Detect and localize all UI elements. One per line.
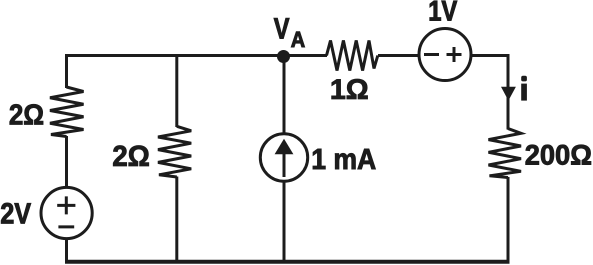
wire: left vertical between R1 and 2V source [65,136,68,189]
label 1 mA [313,149,376,169]
wire: bottom rail [65,260,510,264]
label 1V [430,1,457,21]
V1 minus sign [58,225,74,228]
label 2ohm (middle resistor) [113,146,148,166]
voltage source V2 1V circle [419,29,471,81]
V1 plus sign [57,196,75,214]
voltage source V1 2V circle [41,187,92,238]
wire: left vertical top segment [65,54,68,88]
I1 arrowhead [275,139,294,155]
label 200ohm [526,145,591,165]
wire: top rail from top-left corner to 1ohm resistor [67,54,328,57]
resistor R3 1ohm (horizontal) zigzag [327,41,378,71]
wire: left vertical below 2V source [65,239,68,262]
resistor R2 2ohm (middle) zigzag [158,126,191,177]
node A dot [277,50,290,63]
V2 plus sign [447,47,462,62]
label 2V [1,203,31,223]
label i [521,84,527,101]
label V_A [274,18,289,38]
label 1ohm [332,79,368,99]
wire: 1ohm to V2 [378,54,420,57]
resistor R1 2ohm (left) zigzag [50,87,84,137]
label 2ohm (left resistor) [10,104,43,124]
label V_A subscript A [291,32,305,47]
wire: node A down to current source [283,56,286,135]
current source I1 circle [260,134,307,181]
wire: branch 2 vertical top [175,56,178,128]
wire: V2 to top-right corner and down to 200ohm [471,56,509,130]
V2 minus sign [424,53,439,56]
I1 arrow shaft [283,152,286,177]
wire: current source to bottom rail [283,181,286,262]
wire: branch 2 vertical bottom [175,177,178,263]
current arrow i (arrowhead on right wire) [501,87,516,101]
wire: right vertical below 200ohm [507,177,510,262]
resistor R4 200ohm zigzag [489,129,522,178]
